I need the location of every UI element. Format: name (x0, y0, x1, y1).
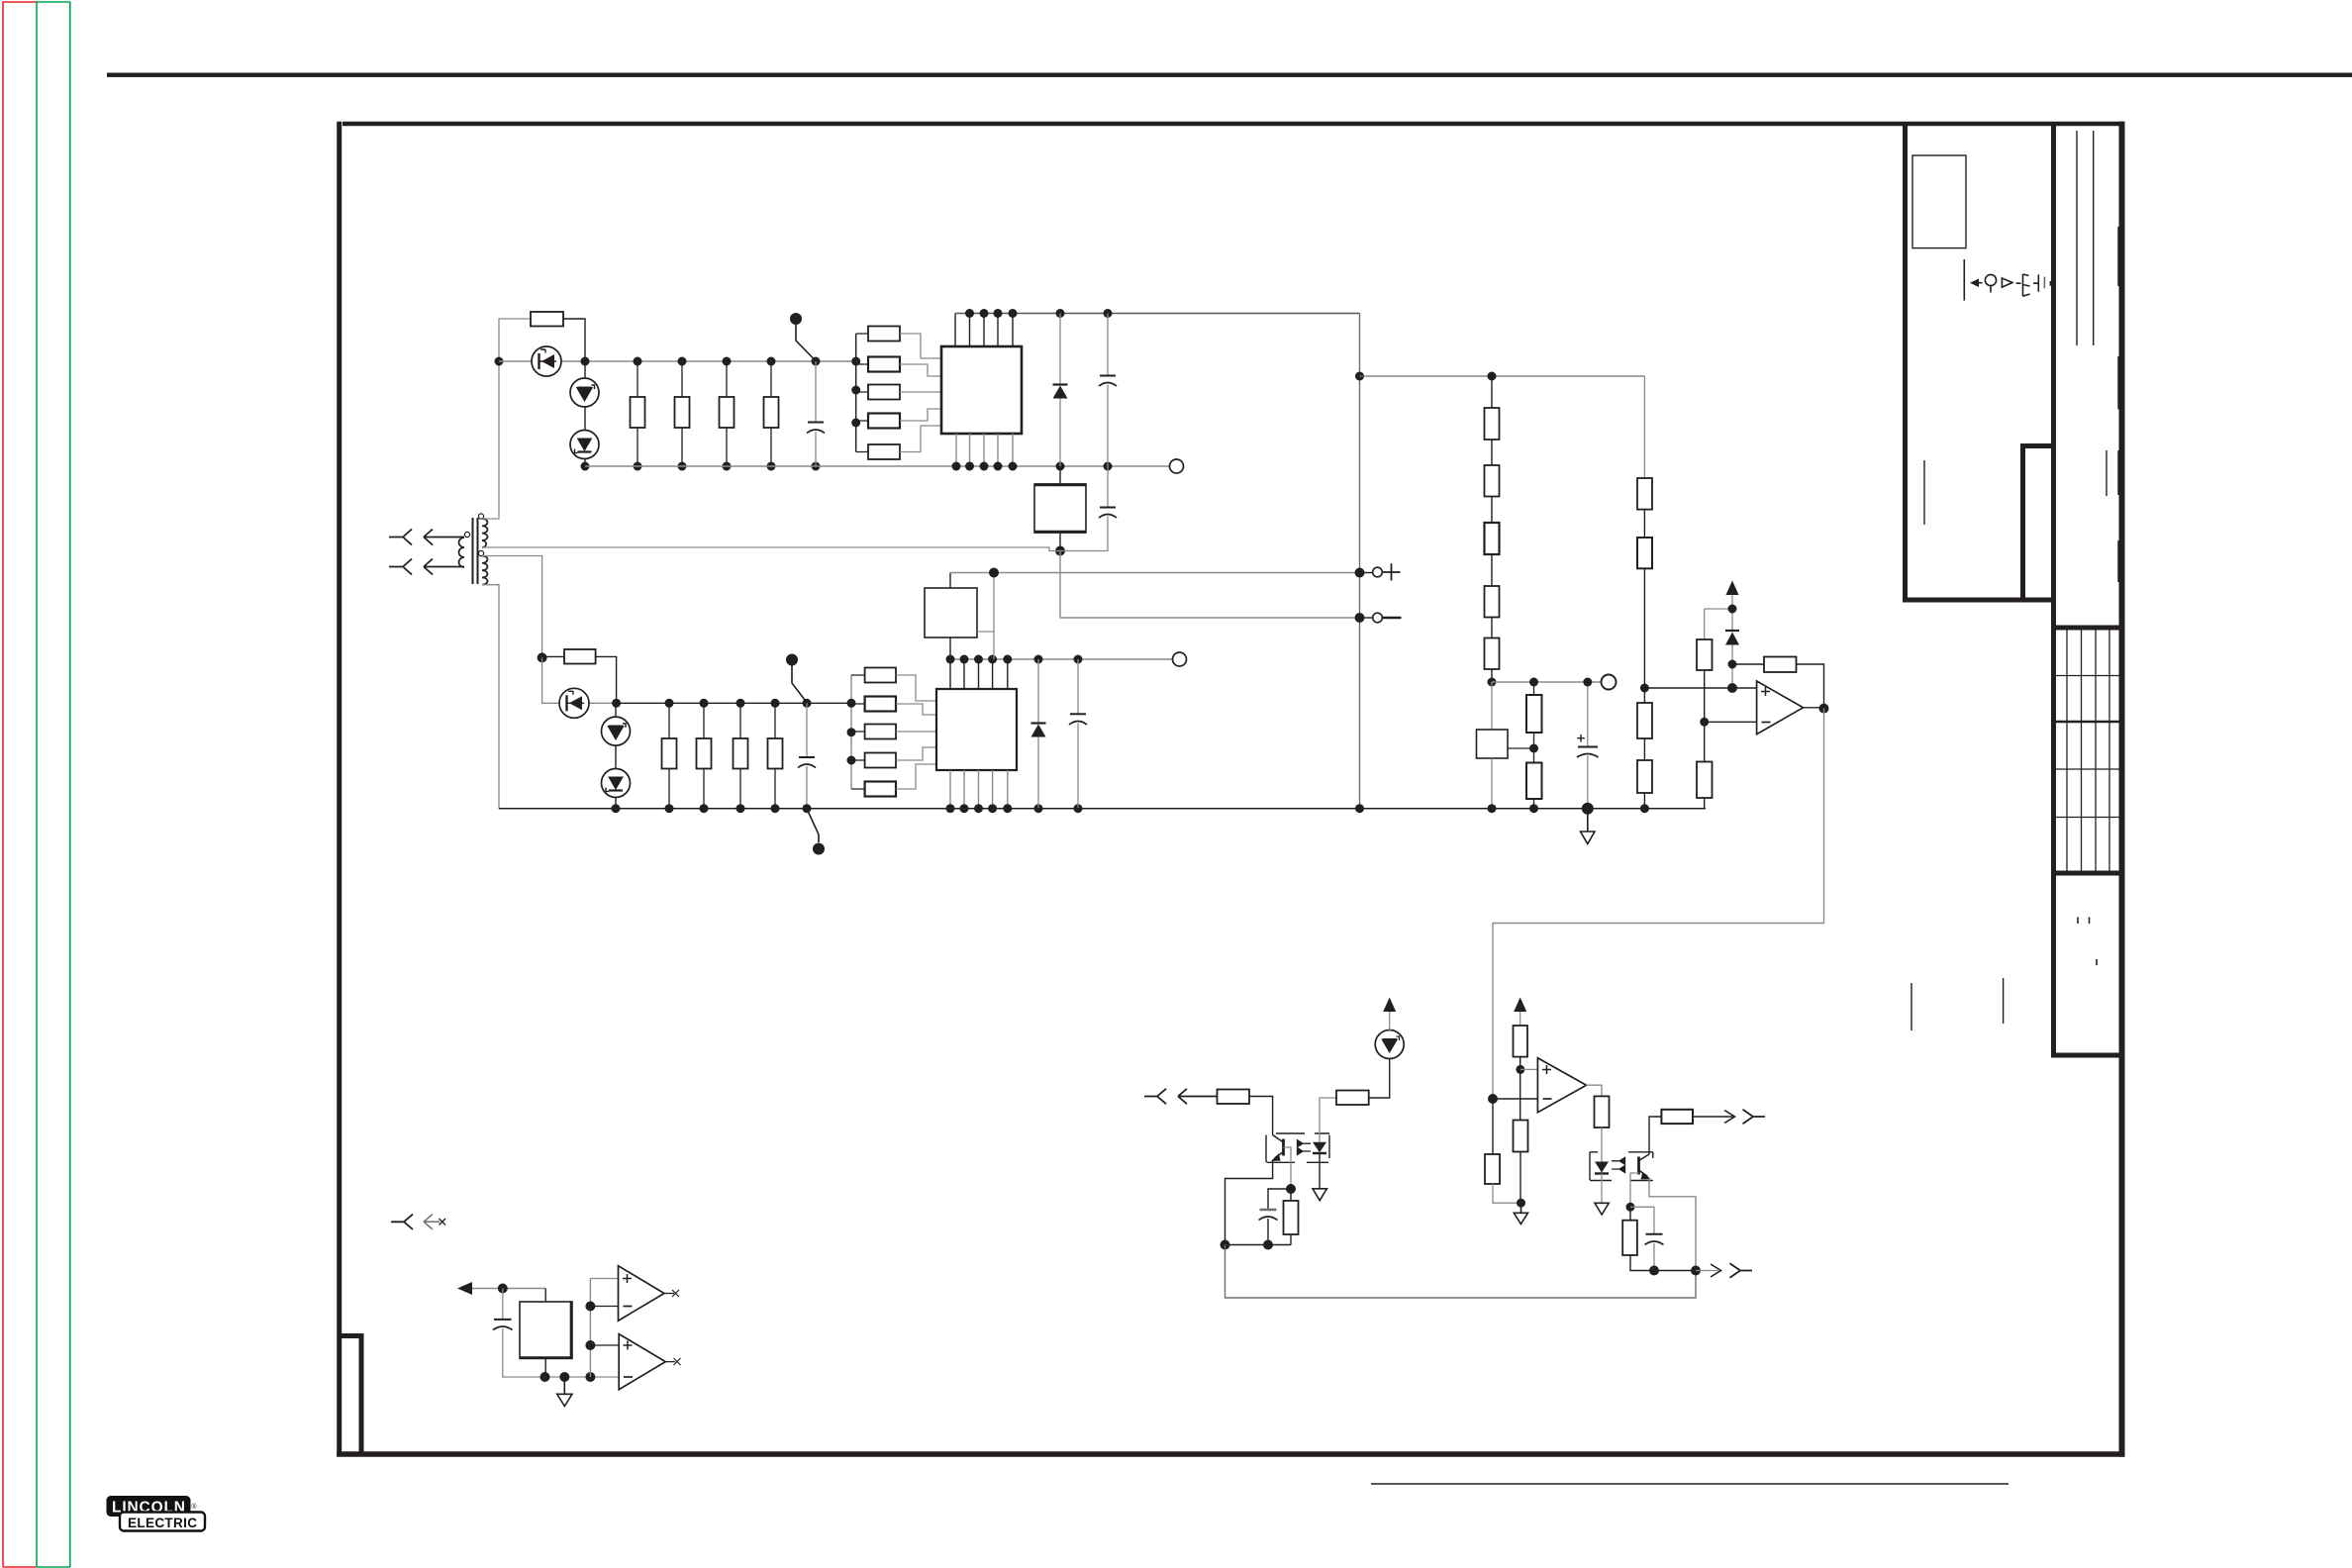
node dot snubber left (1221, 1240, 1230, 1250)
electrolytic cap (1587, 682, 1589, 746)
connector pin arrow input A (389, 530, 412, 545)
input resistor Ra (868, 327, 900, 342)
reference resistor R1 (1637, 478, 1652, 510)
divider resistor R1 (1485, 408, 1500, 440)
divider chain wire (1491, 376, 1493, 682)
IC1 input resistor left rail (855, 334, 857, 452)
opto1 LED cathode to ground (1319, 1153, 1321, 1189)
wire arrow node to gain resistor (1705, 608, 1732, 610)
arrow head output2 (1711, 1264, 1721, 1277)
zener D2 circle (570, 431, 599, 459)
resistor bank bottom dots (634, 462, 821, 471)
capacitor C2 ch1 (1107, 314, 1109, 376)
IC1 bottom pins (956, 434, 1013, 466)
wire SCR row (499, 360, 856, 362)
wire secondary upper top to gate drive rail (482, 319, 531, 519)
optocoupler2 arrows (1612, 1157, 1625, 1172)
node dot zener bottom (581, 462, 590, 471)
top supply bus ch1 (955, 313, 1360, 315)
box ch1 bottom pin (1059, 533, 1061, 551)
node dot clamp bottom (1728, 660, 1737, 669)
optocoupler1 LED arrows (1298, 1140, 1312, 1155)
title block column 2 left edge (2051, 123, 2056, 1055)
supply arrow opto1 (1389, 1012, 1391, 1030)
wire to op-amp plus (1644, 687, 1756, 689)
sense block bottom pin (544, 1358, 546, 1377)
registration bar red (3, 2, 37, 1568)
wire zener column (584, 361, 586, 466)
output resistor feedback (1661, 1110, 1693, 1124)
ch2 step wires to IC2 (896, 675, 936, 789)
ch2 bottom bus dots (946, 804, 1083, 813)
optocoupler2 LED (1595, 1162, 1609, 1173)
snubber bottom tie (1225, 1244, 1292, 1246)
ch2 input resistor Rd (865, 753, 896, 768)
node dot divider mid (1488, 678, 1497, 687)
SCR2 diode (569, 696, 582, 710)
input resistor Rd (868, 414, 900, 429)
wire to op2 plus (1520, 1068, 1538, 1070)
op-amp buffer2 (619, 1334, 665, 1390)
input resistor Rb (868, 357, 900, 372)
zener D1 ch2 symbol (609, 727, 623, 739)
big node dot ground (1582, 803, 1594, 815)
filter resistor lower (1526, 763, 1542, 800)
title block lower box bottom edge (2051, 1053, 2122, 1058)
buffer2 output stub (665, 1361, 675, 1363)
node dot opto2 base (1626, 1203, 1635, 1212)
svg-text:ELECTRIC: ELECTRIC (128, 1516, 197, 1530)
arrow head output1 (1724, 1111, 1735, 1124)
gain resistor riser (1704, 609, 1706, 639)
buffer1 output stub (664, 1293, 674, 1295)
reference chain riser (1643, 376, 1645, 478)
divider resistor R3 (1485, 523, 1500, 554)
op-amp buffer1 (619, 1266, 665, 1322)
gain resistor lower (1697, 762, 1713, 799)
long return wire (1225, 1245, 1697, 1299)
opto2 emitter wire (1649, 1179, 1696, 1271)
transformer T1 secondary winding lower (482, 556, 488, 585)
node dot emitter return (1691, 1266, 1701, 1276)
connector pin arrow input B (389, 559, 412, 575)
title block column 1 bottom edge (1903, 598, 2056, 603)
stray rotated note line b (2003, 978, 2005, 1024)
wire to output arrow2 (1696, 1270, 1718, 1272)
op-amp comparator U2 (1537, 1058, 1586, 1113)
transformer T1 secondary lower polarity dot (478, 550, 483, 555)
wire down to SCR2 row (542, 657, 617, 703)
optocoupler2 LED package (1590, 1152, 1612, 1181)
bottom rail dots (540, 1372, 550, 1382)
ch2 top bus (950, 658, 1172, 660)
minus sign (1383, 617, 1402, 620)
diode D3 ch2 (1037, 659, 1039, 723)
transformer T1 primary winding (459, 538, 465, 567)
optocoupler1 phototransistor (1266, 1133, 1305, 1162)
wire R1 to corner (563, 319, 585, 361)
sense box top riser (949, 573, 951, 589)
feedback tap wire (1360, 375, 1645, 377)
node dot supply (1728, 605, 1737, 614)
gate resistor bank ch2 Rc (734, 738, 748, 769)
input resistor Re (868, 444, 900, 459)
gate resistor bank R2 (631, 397, 645, 428)
plus sign (1383, 563, 1401, 580)
output terminal plus ring (1360, 572, 1374, 574)
stray rotated note line a (1911, 983, 1912, 1030)
resistor bank top dots (634, 357, 821, 366)
ch2 input resistor Rb (865, 697, 896, 712)
gate resistor bank ch2 Rb (697, 738, 712, 769)
wire to opto1 collector (1249, 1097, 1273, 1135)
switch S3 blade lower (808, 810, 820, 842)
snubber resistor (1290, 1189, 1292, 1201)
top page rule (107, 73, 2352, 77)
ground sense (557, 1377, 572, 1407)
opto1 LED anode wire (1320, 1098, 1336, 1142)
IC1 top pins (955, 314, 1013, 347)
indicator LED circle (1375, 1030, 1404, 1059)
main schematic border (337, 122, 2124, 1457)
capacitor C1 (815, 361, 817, 422)
step wires to IC1 (900, 334, 941, 452)
node dot filter mid (1533, 733, 1535, 763)
opto2 base resistor (1629, 1207, 1631, 1220)
input resistor lead stubs (856, 334, 868, 452)
node dot op2 ground (1517, 1199, 1525, 1208)
ground op2 (1514, 1203, 1527, 1224)
zener D1 symbol (578, 388, 592, 401)
buffer1 minus wire (590, 1306, 618, 1308)
output terminal minus ring (1360, 617, 1374, 619)
ch2 input resistor Rc (865, 725, 896, 739)
feedback block arrow left (1225, 1297, 1226, 1299)
top bus dots (965, 309, 1113, 318)
node dot plus wire (989, 568, 999, 578)
shunt box side lead (1508, 747, 1534, 749)
isolated DC-DC box ch1 (1059, 466, 1061, 484)
wire resistor to indicator LED (1369, 1058, 1390, 1098)
rotated text line col1 (1923, 460, 1925, 525)
op-amp gate driver IC1 (941, 346, 1022, 434)
zener D1 ch2 circle (602, 717, 631, 745)
node dot op2 plus (1516, 1065, 1524, 1074)
sense box ch1 (feeds + output) (925, 588, 977, 637)
op-amp gate driver IC2 (936, 689, 1017, 770)
switch S3 dot (813, 843, 825, 855)
IC2 top pins (950, 659, 1008, 689)
opto1 emitter lead (1225, 1161, 1273, 1245)
shunt box (1491, 682, 1493, 730)
connector pin arrow opto1 input (1144, 1089, 1166, 1104)
mid sense terminal ring (1602, 675, 1617, 690)
SCR1 diode (541, 354, 554, 368)
node dot box ch1 bottom (1055, 546, 1065, 556)
reference resistor R2 (1637, 538, 1652, 568)
sense cap (502, 1289, 504, 1320)
title block notch top (2020, 443, 2056, 448)
gate resistor bank ch2 Ra (662, 738, 677, 769)
wire to output arrow (1693, 1116, 1733, 1118)
connector pin pair mid-left mate (424, 1215, 440, 1229)
opto2 base cap (1630, 1207, 1654, 1233)
gain resistor upper (1697, 639, 1713, 670)
zener D1 circle (570, 378, 599, 407)
transformer T1 secondary upper polarity dot (478, 514, 483, 519)
buffer2 plus wire (590, 1344, 619, 1346)
op2 plus bias resistor lower (1514, 1121, 1528, 1152)
title block column 1 left edge (1903, 123, 1908, 602)
zener D2 ch2 circle (602, 769, 631, 798)
opto2 LED cathode ground (1601, 1174, 1603, 1204)
optocoupler1 LED package (1307, 1133, 1329, 1162)
sense op-amp riser (589, 1279, 591, 1378)
transformer T1 primary polarity dot (464, 532, 469, 537)
SCR1 circle (532, 346, 561, 376)
op2 plus bias resistor upper (1514, 1026, 1528, 1057)
connector chevron output1 (1743, 1110, 1766, 1125)
title block small marks (2078, 918, 2097, 966)
node dot ch2 zener bottom (612, 804, 621, 813)
switch S2 dot (786, 654, 798, 666)
divider resistor R5 (1485, 638, 1500, 670)
rotated logo row in title block (1964, 259, 2052, 301)
ground opto1 (1313, 1189, 1326, 1201)
resistor bank leads (637, 361, 771, 466)
node dot SCR2 bus (612, 699, 621, 708)
ch2 input resistor Re (865, 782, 896, 797)
connector pin pair mid-left (391, 1215, 413, 1229)
connector pin arrow opto1 mate (1178, 1089, 1218, 1104)
ch2 bank bottom dots (665, 804, 780, 813)
divider resistor R4 (1485, 586, 1500, 618)
divider resistor R2 (1485, 465, 1500, 497)
svg-text:®: ® (191, 1503, 197, 1511)
opto2 drive resistor (1595, 1096, 1610, 1127)
LED feed resistor (1336, 1091, 1369, 1106)
node dot zener top (581, 357, 590, 366)
SCR2 row bus (617, 702, 851, 704)
opto2 base lead (1630, 1173, 1639, 1207)
SCR2 circle (559, 688, 589, 718)
node dot minus input (1700, 718, 1709, 727)
common lower bus (499, 808, 1706, 810)
ch2 input resistor lead stubs (851, 675, 865, 789)
zener ch2 column wire (615, 703, 617, 808)
title block notch vertical (2020, 444, 2025, 600)
sense box side pin riser (977, 632, 994, 659)
ch2 resistor bank leads (669, 703, 775, 808)
optocoupler1 LED (1313, 1142, 1326, 1153)
divider tap wire to op2 minus (1488, 1094, 1498, 1104)
reference resistor R3 (1643, 688, 1645, 703)
node dot ref mid (1640, 684, 1649, 693)
node dot sense (498, 1284, 508, 1294)
output routing wire down-left (1493, 709, 1824, 1099)
capacitor C2 ch2 (1077, 659, 1079, 714)
reference resistor R4 (1637, 760, 1652, 793)
gate resistor bank ch2 Rd (768, 738, 783, 769)
ground symbol main (1581, 809, 1596, 844)
ch2 top bus dots (946, 655, 1083, 664)
feedback resistor (1732, 663, 1764, 665)
riser dots (1355, 372, 1364, 381)
buffer1 plus wire (590, 1278, 618, 1280)
terminal ring ch1 (1170, 459, 1184, 473)
terminal ring ch2 (1173, 652, 1187, 666)
main right riser (1359, 314, 1361, 809)
gate resistor bank R5 (764, 397, 779, 428)
node dot op-amp output (1819, 704, 1829, 714)
indicator LED symbol (1383, 1039, 1397, 1051)
ch2 rail dots (847, 699, 856, 708)
IC2 input resistor left rail (850, 675, 852, 789)
optocoupler2 phototransistor (1628, 1152, 1653, 1181)
switch S1 blade (796, 325, 816, 360)
rail dots (851, 357, 860, 366)
switch S1 dot (790, 313, 802, 325)
clamp diode (1725, 630, 1739, 632)
minus sense wire (1060, 551, 1360, 619)
opto1 input resistor (1218, 1090, 1250, 1105)
switch S2 blade (792, 665, 807, 702)
opto2 collector wire (1649, 1117, 1661, 1154)
op-amp error amp (1757, 681, 1804, 735)
plus sense wire (950, 572, 1360, 574)
sense box bottom pin (949, 637, 951, 659)
wire secondary upper bottom long (482, 547, 1060, 551)
filter resistor upper (1533, 682, 1535, 695)
lower bus ch1 (585, 465, 1169, 467)
op-amp output wire (1804, 707, 1824, 709)
transformer T1 core (473, 518, 478, 584)
footer underline (1371, 1483, 2009, 1485)
sense block box (544, 1289, 546, 1303)
connector pin arrow input B mate (424, 559, 464, 575)
transformer T1 secondary winding upper (482, 519, 488, 547)
opto1 base lead (1284, 1147, 1292, 1189)
snubber node dot (1286, 1184, 1296, 1194)
node dot snubber2 (1649, 1266, 1659, 1276)
supply arrow up (1726, 581, 1739, 596)
node dot SCR line left (495, 357, 504, 366)
R1 ch2 leads (542, 656, 617, 703)
wire secondary lower bottom to ch2 bus (482, 585, 499, 809)
switch S3 bus dot (803, 804, 812, 813)
ch2 input resistor Ra (865, 668, 896, 683)
gate resistor bank R4 (720, 397, 735, 428)
rotated text lines col2 (2077, 131, 2118, 582)
node dot shunt bottom (1488, 804, 1497, 813)
revision table frame (2051, 628, 2122, 873)
diode D3 ch1 (1059, 314, 1061, 385)
node dot ch2 resistor tap (538, 652, 547, 662)
snubber cap (1268, 1189, 1291, 1210)
mid sense wire (1492, 681, 1602, 683)
wire to op-amp minus (1705, 721, 1757, 723)
capacitor C3 ch1 lower (1107, 466, 1109, 507)
node dot plus input (1727, 683, 1737, 693)
input resistor Rc (868, 385, 900, 400)
lower-left sense arrow (457, 1282, 472, 1295)
connector chevron output2 (1730, 1263, 1753, 1278)
wire secondary lower top to ch2 (482, 556, 542, 658)
op2 output wire (1587, 1085, 1603, 1096)
lower bus IC pin dots (952, 462, 1113, 471)
supply arrow op2 (1514, 998, 1526, 1013)
node dot snubber cap (1263, 1240, 1273, 1250)
connector pin arrow input A mate (424, 530, 464, 545)
net stub x (440, 1219, 446, 1225)
zener D2 ch2 symbol (609, 777, 623, 789)
gate resistor bank R3 (675, 397, 690, 428)
drawing number rectangle (1912, 155, 1966, 248)
node dot divider top (1488, 372, 1497, 381)
registration bar green (37, 2, 70, 1568)
Lincoln Electric logo (107, 1496, 206, 1531)
op2 minus bias resistor (1492, 1099, 1494, 1154)
resistor R1 ch2 (564, 649, 596, 664)
capacitor C1 ch2 (806, 703, 808, 756)
border notch bottom-left (339, 1336, 361, 1455)
IC2 bottom pins (950, 770, 1008, 809)
ch2 bank top dots (665, 699, 812, 708)
zener D2 symbol (578, 439, 592, 450)
resistor R1 (gate series) (531, 312, 563, 327)
